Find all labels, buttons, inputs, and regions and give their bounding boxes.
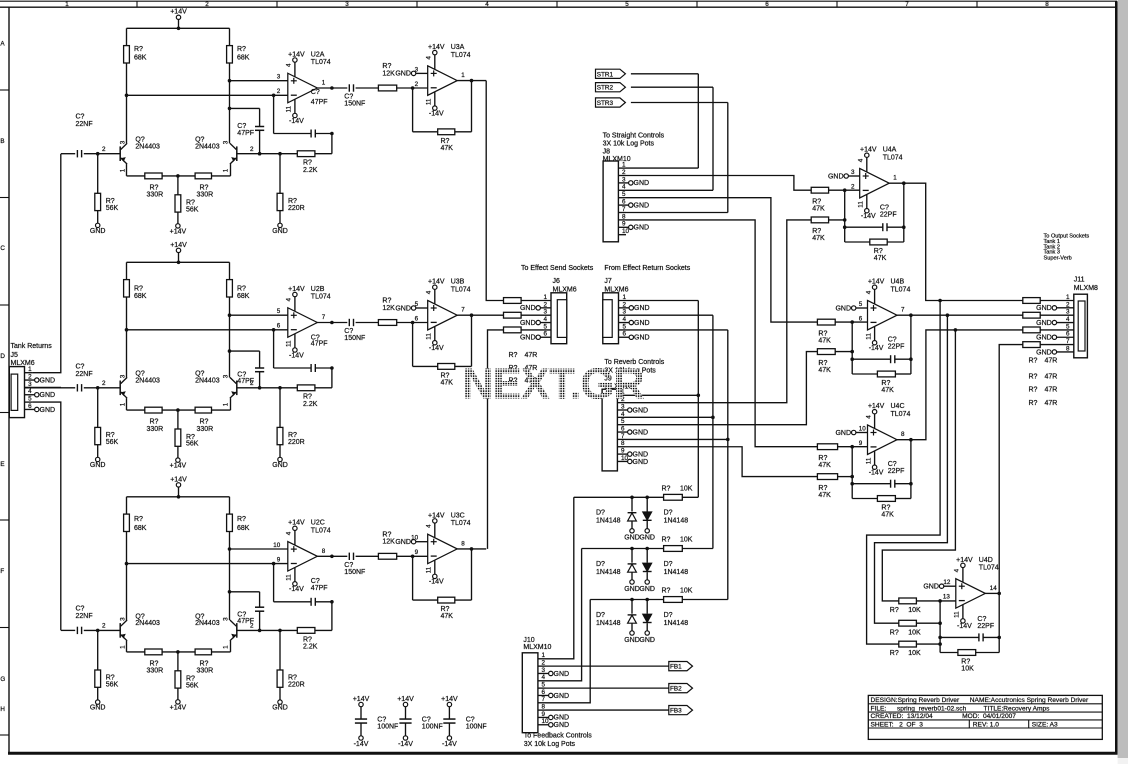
svg-text:47R: 47R [1045, 386, 1058, 393]
ground pin 6 J8 [618, 204, 628, 206]
svg-text:3: 3 [277, 74, 281, 81]
resistor R? 56K tail block 1 [177, 176, 179, 195]
svg-text:U4B: U4B [891, 279, 905, 286]
svg-text:7: 7 [542, 696, 546, 703]
svg-text:5: 5 [28, 396, 32, 403]
svg-text:9: 9 [622, 221, 626, 228]
svg-text:R?: R? [890, 607, 899, 614]
resistor R? 47R output pin 5 [1023, 327, 1040, 333]
ground pin 2 J11 [1057, 307, 1074, 309]
svg-text:10K: 10K [908, 650, 921, 657]
svg-text:68K: 68K [134, 293, 147, 300]
svg-text:GND: GND [520, 335, 536, 342]
svg-text:4: 4 [286, 63, 293, 67]
svg-text:R?: R? [150, 660, 159, 667]
svg-text:+14V: +14V [170, 476, 187, 483]
svg-text:9: 9 [542, 711, 546, 718]
svg-text:TL074: TL074 [451, 520, 471, 527]
pin stub 7 J10 [538, 702, 546, 704]
svg-text:6: 6 [544, 331, 548, 338]
capacitor C? 100NF bypass 3 [448, 707, 450, 719]
diode D? 1N4148 down clipper 3 [646, 600, 648, 614]
svg-text:C?: C? [977, 616, 986, 623]
resistor R? 68K right block 3 [229, 497, 231, 514]
svg-text:GND: GND [624, 637, 640, 644]
ground pin 4 J11 [1057, 322, 1074, 324]
svg-text:GND: GND [1036, 320, 1052, 327]
svg-text:2: 2 [102, 380, 106, 387]
svg-text:+14V: +14V [170, 242, 187, 249]
svg-text:E: E [0, 461, 4, 468]
ground pin 3 J8 [618, 182, 628, 184]
svg-text:R?: R? [881, 380, 890, 387]
svg-text:R?: R? [382, 63, 391, 70]
svg-text:GND: GND [272, 228, 288, 235]
svg-text:22NF: 22NF [76, 121, 93, 128]
svg-text:-14V: -14V [289, 586, 304, 593]
resistor R? 56K input bias block 1 [97, 154, 99, 194]
svg-text:GND: GND [624, 535, 640, 542]
svg-text:GND: GND [1036, 349, 1052, 356]
svg-text:1N4148: 1N4148 [596, 620, 621, 627]
svg-text:4: 4 [485, 1, 489, 8]
svg-text:R?: R? [662, 537, 671, 544]
wire output U3A [457, 80, 486, 82]
svg-text:STR3: STR3 [597, 100, 614, 107]
svg-text:4: 4 [544, 316, 548, 323]
ground reference + input U3A [411, 71, 415, 75]
svg-text:9: 9 [859, 440, 863, 447]
svg-text:10K: 10K [961, 666, 974, 673]
svg-text:1: 1 [1066, 294, 1070, 301]
svg-text:U3B: U3B [451, 279, 465, 286]
pin stub 4 J8 [618, 189, 626, 191]
wire mixer trunk U4C to U4D input 1 [882, 330, 955, 601]
svg-text:To Effect Send Sockets: To Effect Send Sockets [521, 265, 594, 272]
svg-text:1: 1 [461, 72, 465, 79]
wire [631, 86, 713, 88]
svg-text:100NF: 100NF [377, 724, 398, 731]
svg-text:REV: 1.0: REV: 1.0 [973, 721, 999, 728]
svg-text:11: 11 [865, 333, 872, 340]
wire op-amp - input [127, 94, 288, 96]
wire left collector [126, 297, 128, 377]
wire J5 pin 5 to block 3 input [32, 402, 61, 630]
svg-text:220R: 220R [288, 205, 305, 212]
svg-text:R?: R? [150, 419, 159, 426]
svg-text:47PF: 47PF [311, 99, 328, 106]
svg-text:6: 6 [859, 315, 863, 322]
resistor R? 47K feedback U3C [412, 556, 414, 600]
transistor Q1 2N4403 block 1 [119, 146, 121, 161]
svg-text:From Effect Return Sockets: From Effect Return Sockets [604, 265, 690, 272]
wire op-amp - input [127, 563, 288, 565]
ground pin 6 J11 [1057, 336, 1074, 338]
svg-text:C?: C? [76, 605, 85, 612]
svg-text:8: 8 [622, 213, 626, 220]
svg-text:1N4148: 1N4148 [664, 620, 689, 627]
op-amp U3B TL074 second stage [428, 300, 458, 330]
svg-text:MLXM8: MLXM8 [1074, 285, 1098, 292]
svg-text:2N4403: 2N4403 [135, 620, 160, 627]
svg-text:11: 11 [286, 105, 293, 112]
svg-text:3X 10k Log Pots: 3X 10k Log Pots [524, 741, 576, 748]
svg-text:13: 13 [943, 593, 951, 600]
svg-text:68K: 68K [237, 525, 250, 532]
resistor R? 12K block 3 [378, 553, 396, 559]
svg-text:4: 4 [623, 316, 627, 323]
resistor R? 68K left block 3 [126, 497, 128, 514]
ground pin 9 J8 [618, 226, 628, 228]
wire clipper 2 to J10 [546, 549, 582, 681]
resistor R? 47K input 2 U4A [811, 217, 828, 223]
svg-text:2: 2 [622, 169, 626, 176]
svg-text:-14V: -14V [289, 118, 304, 125]
svg-text:R?: R? [509, 352, 518, 359]
wire U3A output to J6 pin 1 [486, 81, 503, 301]
resistor R? 47R output pin 3 [1023, 312, 1040, 318]
wire [397, 87, 428, 89]
resistor R? 47R output pin 7 [1023, 342, 1040, 348]
svg-text:1: 1 [119, 168, 126, 172]
wire op-amp + input [230, 548, 288, 550]
svg-text:1N4148: 1N4148 [596, 569, 621, 576]
svg-text:2: 2 [544, 301, 548, 308]
svg-text:GND: GND [634, 320, 650, 327]
svg-text:12: 12 [943, 579, 951, 586]
svg-text:7: 7 [621, 433, 625, 440]
svg-text:47K: 47K [818, 462, 831, 469]
svg-text:TL074: TL074 [451, 286, 471, 293]
svg-text:U4A: U4A [883, 147, 897, 154]
diode D? 1N4148 up clipper 1 [631, 497, 633, 511]
svg-text:+14V: +14V [956, 557, 973, 564]
svg-text:68K: 68K [237, 54, 250, 61]
svg-text:5: 5 [621, 418, 625, 425]
wire op-amp + input [230, 314, 288, 316]
svg-text:GND: GND [633, 459, 649, 466]
svg-text:+14V: +14V [170, 705, 187, 712]
ground pin 2 J7 [619, 307, 630, 309]
svg-text:2: 2 [102, 146, 106, 153]
+14V supply block 2 [176, 248, 180, 252]
wire [315, 387, 332, 389]
resistor R? 2.2K block 1 [297, 151, 315, 157]
svg-text:3: 3 [345, 1, 349, 8]
svg-text:47K: 47K [818, 492, 831, 499]
svg-text:11: 11 [858, 201, 865, 208]
wire [162, 175, 195, 177]
svg-text:R?: R? [303, 160, 312, 167]
svg-text:TL074: TL074 [891, 411, 911, 418]
svg-text:3: 3 [544, 309, 548, 316]
+14V supply tail [177, 688, 179, 700]
svg-text:G: G [0, 676, 5, 683]
svg-text:GND: GND [520, 305, 536, 312]
capacitor C? 22NF input block 3 [61, 629, 75, 631]
svg-text:330R: 330R [147, 668, 164, 675]
capacitor C? 47PF collector-base block 1 [230, 107, 260, 109]
svg-text:6: 6 [621, 425, 625, 432]
svg-text:1N4148: 1N4148 [664, 569, 689, 576]
svg-text:R?: R? [812, 228, 821, 235]
svg-text:+14V: +14V [441, 696, 458, 703]
svg-text:spring_reverb01-02.sch: spring_reverb01-02.sch [897, 705, 967, 712]
resistor R? 10K input 2 U4D [899, 620, 917, 626]
svg-text:8: 8 [542, 704, 546, 711]
svg-text:4: 4 [426, 290, 433, 294]
ground reference + input U4C [852, 430, 856, 434]
svg-text:2.2K: 2.2K [303, 644, 318, 651]
svg-text:1: 1 [544, 294, 548, 301]
ground pin 4 J7 [619, 322, 630, 324]
svg-text:3: 3 [119, 617, 126, 621]
svg-text:SIZE: A3: SIZE: A3 [1032, 721, 1058, 728]
resistor R? 220R block 1 [279, 154, 281, 194]
svg-text:+14V: +14V [288, 51, 305, 58]
svg-text:2: 2 [623, 301, 627, 308]
+14V supply bypass 3 [447, 702, 451, 706]
svg-text:6: 6 [415, 315, 419, 322]
+14V supply bypass 1 [359, 702, 363, 706]
wire output U4A [902, 181, 906, 185]
resistor R? 47R send pin 3 [504, 312, 522, 318]
resistor R? 10K input 1 U4D [899, 598, 917, 604]
svg-text:-14V: -14V [861, 213, 876, 220]
svg-text:GND: GND [554, 693, 570, 700]
resistor R? 10K input 3 U4D [899, 641, 917, 647]
svg-text:SHEET: 2 OF 3: SHEET: 2 OF 3 [871, 721, 924, 728]
svg-text:2N4403: 2N4403 [135, 143, 160, 150]
svg-text:GND: GND [828, 173, 844, 180]
-14V supply bypass 3 [447, 736, 451, 740]
svg-text:TITLE:Recovery Amps: TITLE:Recovery Amps [984, 705, 1051, 712]
pin stub 2 J8 [618, 175, 626, 177]
svg-text:1: 1 [119, 402, 126, 406]
ground reference + input U3B [411, 306, 415, 310]
wire J8 pin 4 from STR2 [626, 189, 713, 191]
svg-text:11: 11 [954, 611, 961, 618]
diode D? 1N4148 down clipper 2 [646, 549, 648, 563]
svg-text:+14V: +14V [428, 512, 445, 519]
svg-text:2N4403: 2N4403 [195, 143, 220, 150]
svg-text:GND: GND [633, 451, 649, 458]
ground reference + input U4A [844, 174, 848, 178]
svg-text:100NF: 100NF [466, 724, 487, 731]
svg-text:J11: J11 [1074, 277, 1085, 284]
transistor Q2 2N4403 block 1 [236, 146, 238, 161]
wire J9 pin 2 to U4A second input resistor [625, 220, 811, 403]
flag FB3 [546, 709, 669, 711]
wire output U3B [457, 314, 503, 316]
svg-text:+14V: +14V [868, 279, 885, 286]
svg-text:4: 4 [865, 290, 872, 294]
wire J9 pin 7 junction on return trunk 3 [625, 438, 728, 440]
wire J9 pin 5 to U4B second input resistor [625, 352, 817, 425]
svg-text:56K: 56K [186, 207, 199, 214]
capacitor C? 47PF collector-base block 2 [230, 350, 260, 352]
resistor R? 56K input bias block 2 [97, 388, 99, 428]
svg-text:7: 7 [901, 307, 905, 314]
svg-text:4: 4 [865, 415, 872, 419]
svg-text:3: 3 [622, 176, 626, 183]
capacitor C? 100NF bypass 1 [360, 707, 362, 719]
svg-text:4: 4 [542, 674, 546, 681]
svg-text:TL074: TL074 [311, 528, 331, 535]
svg-text:STR2: STR2 [597, 85, 614, 92]
resistor R? 10K clipper 2 [664, 546, 683, 552]
ground pin 6 J5 [25, 408, 35, 410]
svg-text:68K: 68K [237, 293, 250, 300]
svg-text:D?: D? [596, 612, 605, 619]
svg-text:R?: R? [818, 330, 827, 337]
svg-text:GND: GND [639, 586, 655, 593]
svg-text:D?: D? [596, 561, 605, 568]
wire output U3C [457, 548, 486, 550]
wire mixer trunk U4B to U4D input 2 [875, 315, 948, 623]
ground [630, 631, 634, 635]
wire J5 pin 3 to block 2 input [32, 386, 61, 388]
svg-text:H: H [0, 706, 5, 713]
svg-text:R?: R? [134, 516, 143, 523]
wire +14V rail [127, 496, 230, 498]
svg-text:10: 10 [622, 228, 630, 235]
left ruler row ticks [0, 89, 9, 91]
svg-text:4: 4 [426, 56, 433, 60]
svg-text:8: 8 [901, 431, 905, 438]
resistor R? 220R block 3 [279, 630, 281, 670]
svg-text:9: 9 [621, 448, 625, 455]
svg-text:2: 2 [250, 146, 254, 153]
capacitor C? 22NF input block 1 [61, 153, 75, 155]
svg-text:4: 4 [1066, 316, 1070, 323]
svg-text:47R: 47R [1045, 358, 1058, 365]
svg-text:47K: 47K [874, 255, 887, 262]
svg-text:47K: 47K [818, 337, 831, 344]
svg-text:-14V: -14V [442, 741, 457, 748]
svg-text:1: 1 [65, 1, 69, 8]
wire right collector [229, 297, 231, 377]
svg-text:GND: GND [634, 180, 650, 187]
ground pin 8 J11 [1057, 351, 1074, 353]
svg-text:2N4403: 2N4403 [195, 620, 220, 627]
wire [397, 555, 428, 557]
resistor R? 10K clipper 1 [664, 494, 683, 500]
svg-text:9: 9 [277, 556, 281, 563]
wire J5 pin 1 to block 1 input [32, 154, 61, 373]
svg-text:GND: GND [624, 586, 640, 593]
ground pin 4 J6 [540, 322, 551, 324]
wire J9 pin 8 to U4C second input resistor [625, 447, 817, 477]
svg-text:R?: R? [441, 373, 450, 380]
svg-text:4: 4 [858, 158, 865, 162]
svg-text:10: 10 [859, 425, 867, 432]
svg-text:GND: GND [90, 228, 106, 235]
transistor Q2 2N4403 block 3 [236, 623, 238, 638]
svg-text:C?: C? [76, 114, 85, 121]
wire U4D output to J11 pin 7 [985, 592, 999, 594]
ground pin 10 J10 [538, 724, 549, 726]
capacitor C? 22PF feedback U4A [844, 190, 846, 242]
svg-text:47PF: 47PF [311, 341, 328, 348]
capacitor C? 150NF coupling block 1 [348, 84, 350, 91]
svg-text:3: 3 [222, 140, 229, 144]
ground pin 6 J10 [538, 694, 549, 696]
svg-text:GND: GND [272, 462, 288, 469]
svg-text:10K: 10K [680, 485, 693, 492]
wire [397, 322, 428, 324]
ground [645, 631, 649, 635]
svg-text:R?: R? [200, 184, 209, 191]
svg-text:2: 2 [1066, 301, 1070, 308]
svg-text:J5: J5 [11, 352, 19, 359]
svg-text:330R: 330R [197, 426, 214, 433]
svg-text:47K: 47K [881, 387, 894, 394]
wire [178, 487, 180, 497]
wire [212, 175, 231, 177]
wire J7 pin 3 return trunk [619, 314, 713, 316]
svg-text:R?: R? [818, 360, 827, 367]
svg-text:68K: 68K [134, 525, 147, 532]
wire return trunk 3 down to clipper 3 [727, 330, 729, 600]
resistor R? 47K input 2 U4C [817, 474, 837, 480]
wire J7 pin 5 return trunk [619, 329, 728, 331]
svg-text:TL074: TL074 [883, 154, 903, 161]
svg-text:11: 11 [426, 333, 433, 340]
svg-text:4: 4 [28, 388, 32, 395]
pin stub 1 J8 [618, 167, 626, 169]
wire J9 pin 4 junction on return trunk 2 [625, 416, 713, 418]
svg-text:4: 4 [622, 184, 626, 191]
svg-text:8: 8 [621, 440, 625, 447]
svg-text:C?: C? [466, 717, 475, 724]
svg-text:C?: C? [888, 336, 897, 343]
svg-text:56K: 56K [186, 441, 199, 448]
resistor R? 47K input 1 U4C [817, 444, 837, 450]
svg-text:2N4403: 2N4403 [195, 378, 220, 385]
wire clipper 1 to J10 [546, 497, 574, 659]
capacitor C? 47PF feedback U2A [273, 95, 275, 133]
pin stub 5 J8 [618, 197, 626, 199]
transistor Q2 2N4403 block 2 [236, 381, 238, 396]
svg-text:R?: R? [134, 285, 143, 292]
svg-text:4: 4 [286, 531, 293, 535]
wire [162, 409, 195, 411]
svg-text:R?: R? [1029, 374, 1038, 381]
svg-text:R?: R? [874, 248, 883, 255]
svg-text:7: 7 [905, 1, 909, 8]
ground pin 4 J5 [25, 394, 35, 396]
svg-text:330R: 330R [197, 668, 214, 675]
svg-text:U3A: U3A [451, 44, 465, 51]
svg-text:3: 3 [222, 617, 229, 621]
svg-text:14: 14 [990, 585, 998, 592]
svg-text:+14V: +14V [170, 9, 187, 16]
svg-text:GND: GND [40, 392, 56, 399]
svg-text:J7: J7 [604, 278, 612, 285]
svg-text:TL074: TL074 [451, 52, 471, 59]
svg-text:U2A: U2A [311, 51, 325, 58]
svg-text:2.2K: 2.2K [303, 401, 318, 408]
svg-text:150NF: 150NF [344, 101, 365, 108]
flag STR3 [596, 98, 626, 107]
wire right collector [229, 532, 231, 621]
svg-text:8: 8 [461, 540, 465, 547]
wire [315, 629, 332, 631]
resistor R? 330R right emitter block 3 [195, 649, 211, 655]
svg-text:+14V: +14V [860, 147, 877, 154]
resistor R? 220R block 2 [279, 388, 281, 428]
